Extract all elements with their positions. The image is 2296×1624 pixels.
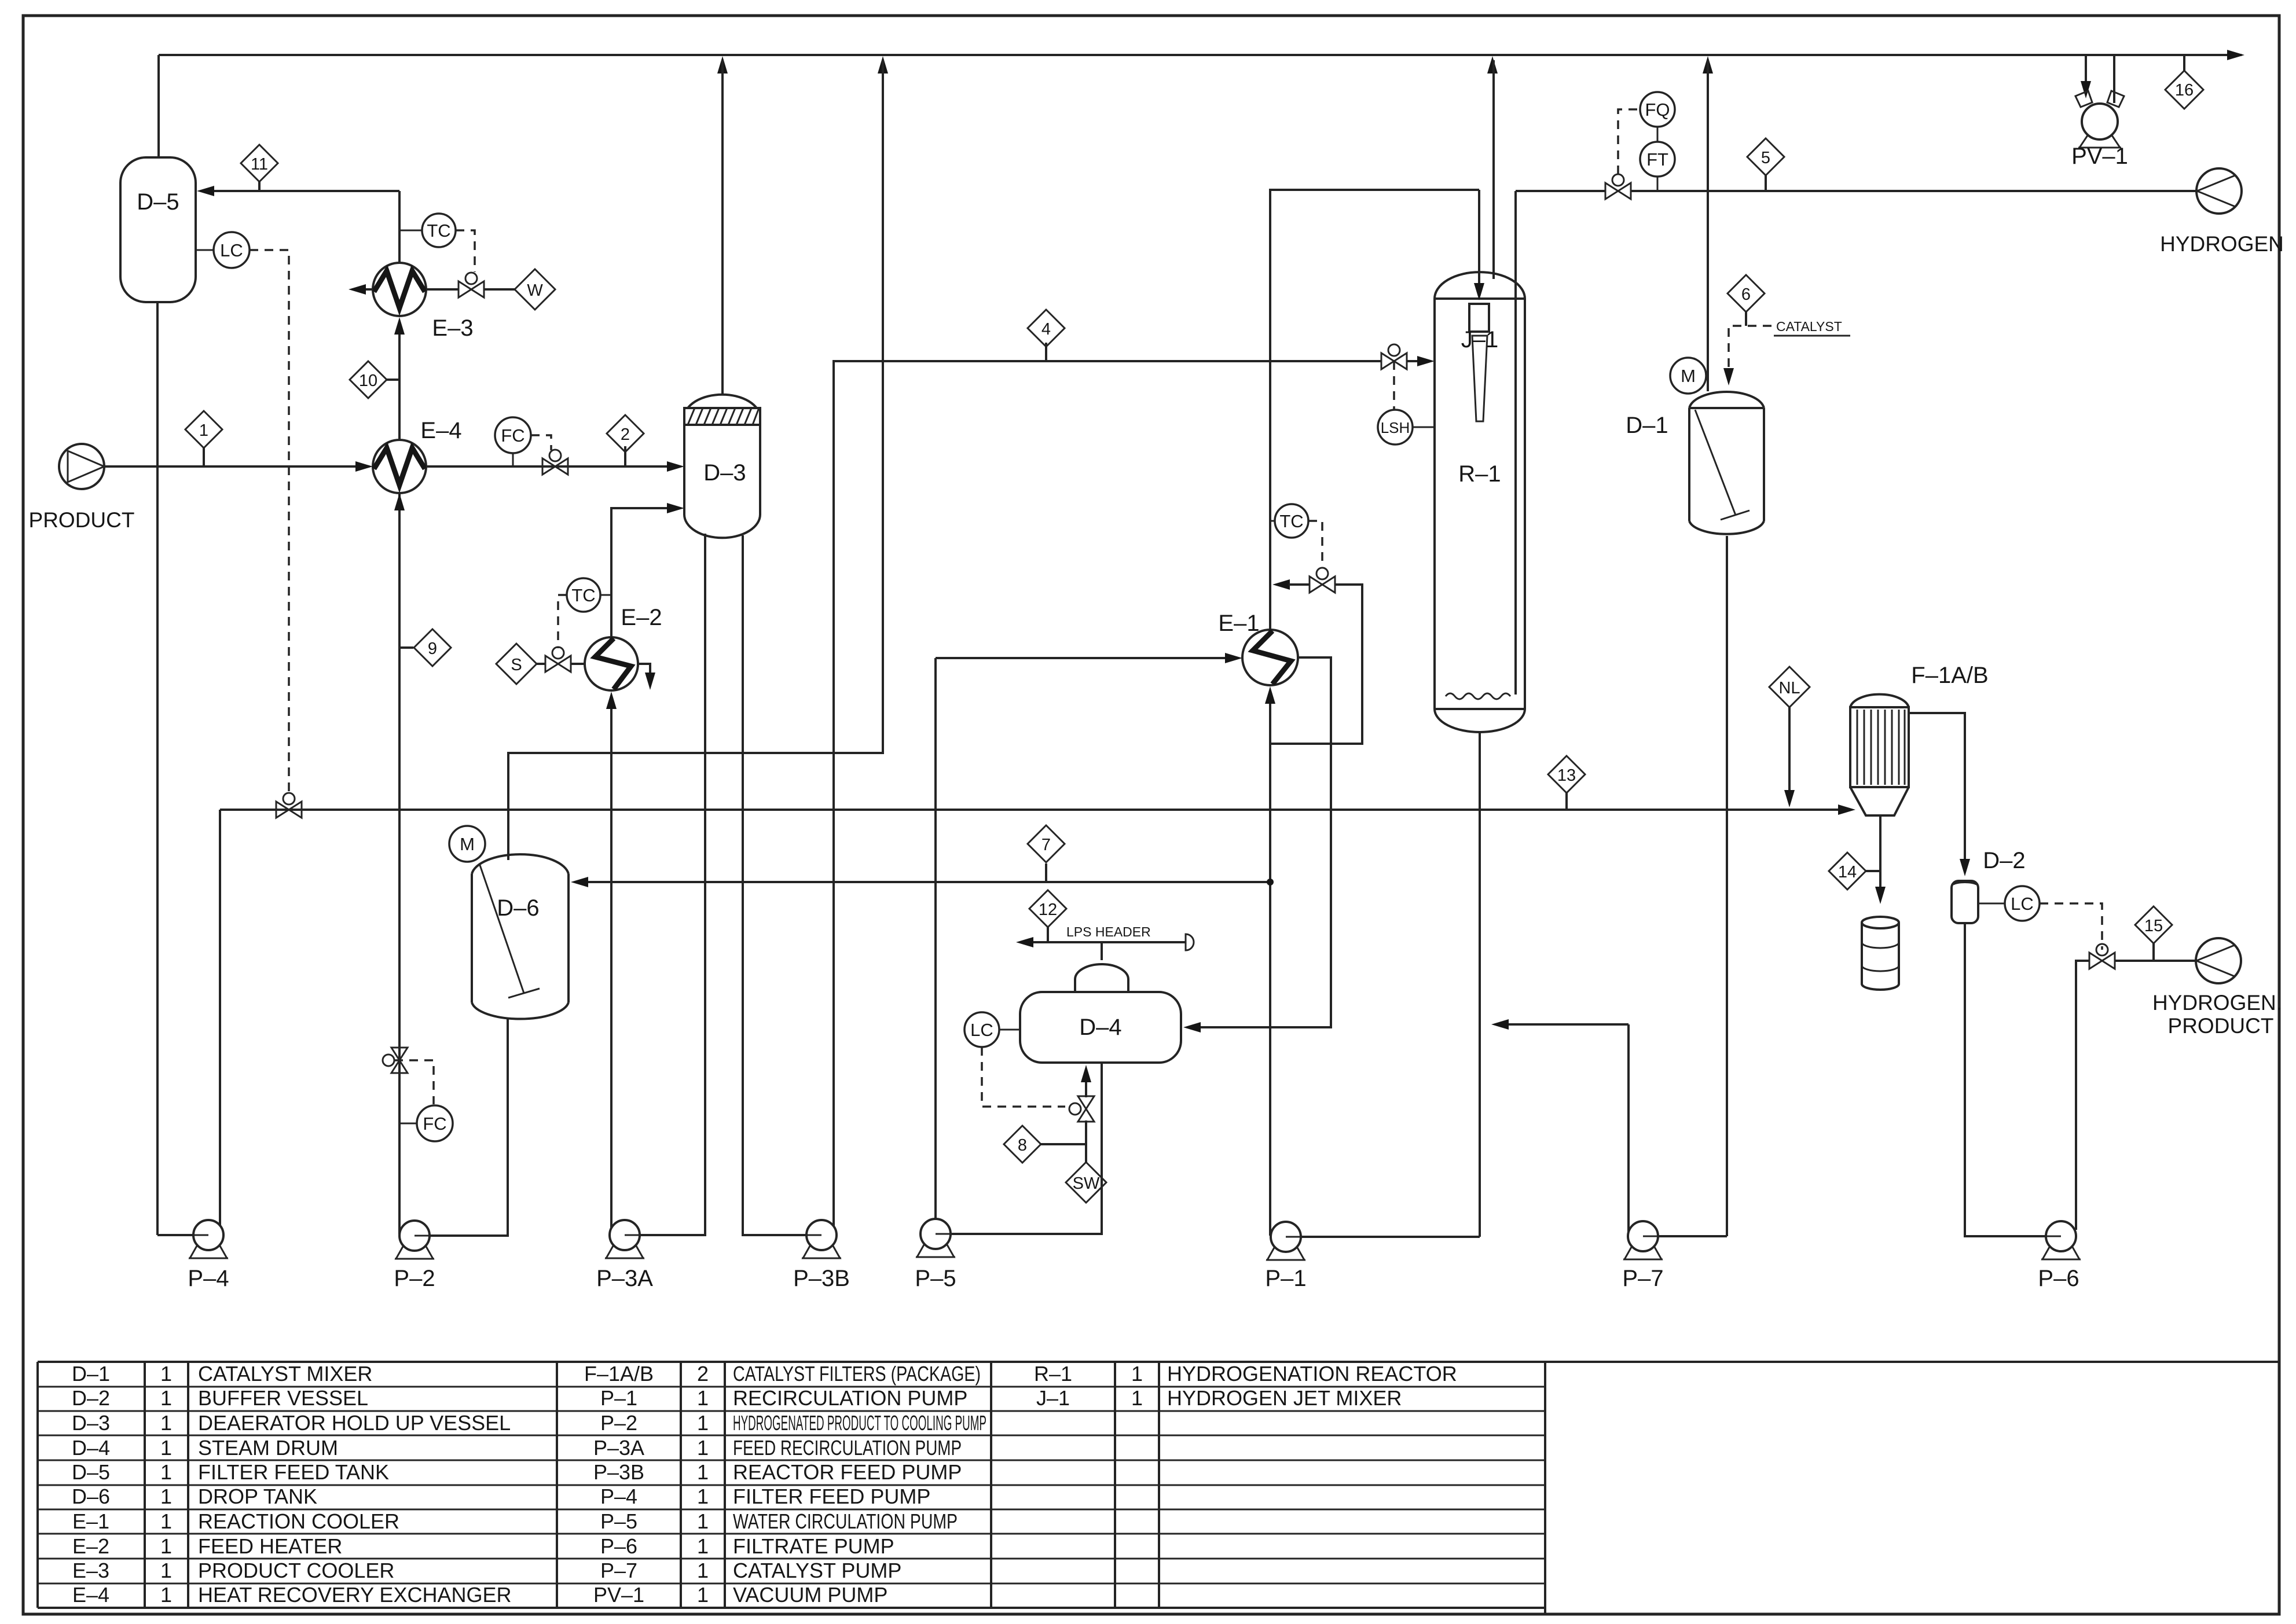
- pump P-3B: [793, 1220, 850, 1291]
- wire: D-1 feed drop: [1707, 191, 1709, 391]
- steam drum D-4: [1020, 964, 1181, 1063]
- svg-text:1: 1: [160, 1534, 172, 1558]
- wire: E-3 to cooling water valve: [426, 288, 459, 291]
- hydrogen supply symbol: [2160, 168, 2284, 256]
- utility diamond SW: [1066, 1162, 1106, 1203]
- wire: E-2 condensate drain stub: [638, 664, 655, 690]
- hydrogenation reactor R-1: [1435, 272, 1525, 732]
- junction arrow: D-6 vent joins header: [878, 56, 888, 74]
- wire: valve to R-1 inlet: [1407, 356, 1435, 366]
- svg-text:TC: TC: [427, 221, 450, 241]
- svg-text:PRODUCT COOLER: PRODUCT COOLER: [198, 1559, 394, 1582]
- pump P-6: [2038, 1221, 2081, 1291]
- svg-text:FILTRATE PUMP: FILTRATE PUMP: [733, 1534, 894, 1558]
- drop tank D-6: [472, 854, 569, 1019]
- wire: dashed TC to steam valve: [558, 595, 567, 648]
- wire: D-3 right bottom outlet to P-3B suction: [743, 535, 807, 1235]
- level switch high LSH: [1378, 410, 1435, 444]
- svg-text:TC: TC: [571, 585, 595, 605]
- svg-text:WATER CIRCULATION PUMP: WATER CIRCULATION PUMP: [733, 1509, 958, 1533]
- svg-text:1: 1: [697, 1411, 709, 1435]
- svg-text:1: 1: [160, 1362, 172, 1386]
- svg-text:P–3A: P–3A: [593, 1436, 644, 1460]
- wire: D-3 riser to header: [721, 60, 724, 395]
- svg-text:TC: TC: [1279, 511, 1303, 531]
- utility diamond W (cooling water): [515, 269, 555, 310]
- svg-text:HYDROGEN JET MIXER: HYDROGEN JET MIXER: [1167, 1386, 1402, 1410]
- wire: D-3 left bottom outlet to P-3A discharge: [639, 534, 705, 1235]
- wire: dashed valve to LSH: [1393, 361, 1395, 410]
- svg-text:1: 1: [160, 1386, 172, 1410]
- wire: NL into filter feed line: [1784, 707, 1795, 807]
- product cooler E-3: [373, 263, 474, 341]
- buffer vessel D-2: [1952, 848, 2026, 923]
- svg-text:7: 7: [1041, 836, 1051, 854]
- svg-text:1: 1: [697, 1460, 709, 1484]
- svg-text:PV–1: PV–1: [593, 1583, 644, 1607]
- svg-text:W: W: [527, 281, 543, 300]
- stream diamond 12: [1029, 890, 1066, 942]
- svg-text:D–1: D–1: [1626, 413, 1668, 438]
- LPS header line: [1016, 934, 1194, 950]
- control valve (steam to E-2): [545, 647, 571, 672]
- svg-text:E–3: E–3: [432, 315, 473, 341]
- svg-text:11: 11: [251, 155, 268, 174]
- svg-text:P–7: P–7: [1622, 1266, 1663, 1291]
- svg-text:LSH: LSH: [1381, 419, 1410, 436]
- wire: bypass from valve down and back to E-1 suction: [1270, 585, 1362, 744]
- wire: product feed to E-4: [104, 461, 373, 472]
- svg-text:P–3B: P–3B: [793, 1266, 850, 1291]
- stream diamond 13: [1548, 756, 1585, 810]
- svg-text:14: 14: [1838, 863, 1857, 881]
- stream diamond 16: [2165, 55, 2203, 109]
- svg-text:J–1: J–1: [1036, 1386, 1070, 1410]
- svg-text:RECIRCULATION PUMP: RECIRCULATION PUMP: [733, 1386, 967, 1410]
- wire: P-7 discharge to D-1 bottoms line: [1658, 1235, 1727, 1237]
- svg-text:D–6: D–6: [72, 1485, 110, 1508]
- junction arrow: R-1 riser joins header: [1487, 56, 1498, 74]
- svg-text:STEAM DRUM: STEAM DRUM: [198, 1436, 338, 1460]
- svg-text:P–6: P–6: [600, 1534, 637, 1558]
- wire: dashed TC to bypass valve: [1308, 521, 1322, 563]
- svg-text:E–4: E–4: [72, 1583, 109, 1607]
- stream diamond 2: [607, 415, 644, 466]
- flow controller FC (deaerator feed): [495, 417, 531, 466]
- control valve (P-2 discharge, vertical): [383, 1048, 408, 1073]
- svg-text:1: 1: [160, 1436, 172, 1460]
- svg-text:E–1: E–1: [1218, 611, 1259, 636]
- flow totalizer FQ: [1640, 92, 1675, 127]
- svg-text:P–3B: P–3B: [593, 1460, 644, 1484]
- svg-text:1: 1: [697, 1485, 709, 1508]
- catalyst filters F-1A/B: [1850, 663, 1989, 815]
- wire: D-1 overhead line to header: [1707, 60, 1709, 191]
- svg-text:P–4: P–4: [188, 1266, 229, 1291]
- svg-text:E–2: E–2: [621, 605, 662, 630]
- wire: drop tank feed line from recirculation: [571, 877, 1270, 887]
- wire: dashed LC signal to valve on filter feed line: [250, 250, 289, 794]
- agitator motor M (D-1): [1670, 358, 1706, 394]
- filter feed tank D-5: [120, 157, 196, 302]
- wire: E-4 outlet to D-3: [426, 461, 684, 472]
- svg-text:FC: FC: [423, 1114, 446, 1134]
- svg-text:M: M: [460, 834, 475, 854]
- svg-text:HYDROGENATED PRODUCT TO COOLIN: HYDROGENATED PRODUCT TO COOLING PUMP: [733, 1411, 986, 1435]
- svg-text:P–6: P–6: [2038, 1266, 2079, 1291]
- flow controller FC (P-2 line): [399, 1105, 453, 1141]
- wire: E-4 to E-3 vertical: [394, 317, 405, 440]
- svg-text:HYDROGEN: HYDROGEN: [2160, 232, 2284, 256]
- wire: E-3 riser to D-5 line: [398, 191, 401, 263]
- svg-text:D–1: D–1: [72, 1362, 110, 1386]
- wire: R-1 vapour riser to header: [1492, 60, 1495, 279]
- svg-text:6: 6: [1741, 285, 1751, 304]
- wire: D-1 bottoms down to P-7: [1726, 536, 1728, 1236]
- wire: D-4 water outlet to P-5 suction: [951, 1063, 1102, 1234]
- wire: valve to E-2: [571, 663, 585, 665]
- svg-text:LPS HEADER: LPS HEADER: [1066, 924, 1151, 939]
- svg-text:1: 1: [697, 1436, 709, 1460]
- svg-text:D–4: D–4: [1079, 1015, 1121, 1040]
- svg-text:P–1: P–1: [1265, 1266, 1306, 1291]
- svg-text:9: 9: [428, 640, 437, 658]
- svg-text:8: 8: [1018, 1136, 1027, 1155]
- pump P-2: [394, 1221, 435, 1291]
- svg-text:E–2: E–2: [72, 1534, 109, 1558]
- svg-text:1: 1: [697, 1534, 709, 1558]
- wire: D-6 bottoms down to P-2 discharge corner: [430, 1019, 508, 1236]
- svg-text:16: 16: [2175, 81, 2194, 100]
- svg-text:E–3: E–3: [72, 1559, 109, 1582]
- wire: D-6 vent riser to header: [508, 60, 883, 860]
- wire: P-5 discharge riser to E-1: [934, 658, 937, 1218]
- svg-text:1: 1: [160, 1583, 172, 1607]
- svg-text:REACTION COOLER: REACTION COOLER: [198, 1509, 399, 1533]
- svg-text:1: 1: [160, 1559, 172, 1582]
- wire: bypass valve line joining E-1 riser: [1272, 579, 1310, 590]
- svg-text:D–4: D–4: [72, 1436, 110, 1460]
- wire: SW make-up into D-4: [1081, 1065, 1091, 1162]
- pump P-3A: [596, 1220, 653, 1291]
- deaerator hold up vessel D-3: [684, 395, 760, 538]
- stream diamond 15: [2135, 906, 2172, 961]
- svg-text:12: 12: [1039, 901, 1057, 919]
- temperature controller TC (E-3): [399, 214, 456, 247]
- svg-text:1: 1: [1131, 1386, 1143, 1410]
- wire: dashed valve to FQ: [1618, 109, 1638, 174]
- svg-text:FILTER FEED PUMP: FILTER FEED PUMP: [733, 1485, 930, 1508]
- svg-text:1: 1: [1131, 1362, 1143, 1386]
- stream diamond 10: [350, 361, 399, 398]
- wire: hydrogen dip tube inside R-1: [1514, 191, 1517, 695]
- svg-text:S: S: [511, 656, 522, 674]
- svg-text:DROP TANK: DROP TANK: [198, 1485, 317, 1508]
- svg-text:DEAERATOR HOLD UP VESSEL: DEAERATOR HOLD UP VESSEL: [198, 1411, 511, 1435]
- svg-text:1: 1: [160, 1411, 172, 1435]
- svg-text:REACTOR FEED PUMP: REACTOR FEED PUMP: [733, 1460, 962, 1484]
- svg-text:FT: FT: [1646, 149, 1668, 170]
- control valve (D-3 feed): [542, 450, 568, 475]
- wire: header drop into PV-1: [2081, 55, 2091, 98]
- svg-text:F–1A/B: F–1A/B: [584, 1362, 654, 1386]
- control valve (hydrogenated product): [2089, 944, 2115, 969]
- wire: D-2 bottoms down to P-6: [1965, 923, 2046, 1236]
- svg-text:1: 1: [697, 1583, 709, 1607]
- svg-text:SW: SW: [1073, 1174, 1100, 1193]
- stream diamond 6: [1727, 275, 1765, 326]
- svg-text:2: 2: [621, 425, 630, 444]
- svg-text:R–1: R–1: [1034, 1362, 1072, 1386]
- svg-text:BUFFER VESSEL: BUFFER VESSEL: [198, 1386, 368, 1410]
- wire: PV-1 discharge to header: [2113, 55, 2115, 103]
- wire: filter solids drop to drum: [1875, 815, 1886, 904]
- svg-text:P–3A: P–3A: [596, 1266, 653, 1291]
- svg-text:J–1: J–1: [1461, 327, 1499, 352]
- level controller LC (D-4): [964, 1012, 1020, 1047]
- svg-text:4: 4: [1041, 320, 1051, 339]
- junction arrow: D-1 line joins header: [1703, 56, 1713, 74]
- control valve (E-1 bypass): [1310, 568, 1335, 593]
- svg-text:LC: LC: [2011, 894, 2034, 914]
- wire: cooling water into E-1 from P-5: [936, 653, 1242, 663]
- hydrogen supply line: [1516, 190, 1605, 192]
- svg-text:5: 5: [1761, 149, 1770, 167]
- wire: E-2 bottom line down to P-3A: [606, 692, 617, 1234]
- product feed symbol: [29, 444, 135, 532]
- svg-text:M: M: [1681, 366, 1696, 386]
- wire: E-2 outlet into D-3 side: [611, 503, 684, 637]
- svg-text:P–4: P–4: [600, 1485, 637, 1508]
- stream diamond 9: [399, 629, 451, 666]
- svg-text:P–2: P–2: [600, 1411, 637, 1435]
- wire: dashed TC to W valve: [456, 230, 475, 272]
- wire: R-1 bottoms down to P-1 discharge: [1479, 731, 1481, 1237]
- wire: top vapour header y=95: [159, 50, 2244, 60]
- level controller LC (D-5): [196, 232, 250, 268]
- svg-text:HEAT RECOVERY EXCHANGER: HEAT RECOVERY EXCHANGER: [198, 1583, 511, 1607]
- svg-text:D–2: D–2: [1983, 848, 2025, 873]
- wire: D-5 bottom outlet down to P-4: [156, 302, 159, 1235]
- svg-text:D–2: D–2: [72, 1386, 110, 1410]
- svg-text:D–3: D–3: [703, 460, 746, 486]
- svg-text:E–1: E–1: [72, 1509, 109, 1533]
- svg-text:P–2: P–2: [394, 1266, 435, 1291]
- wire: E-1 outlet up and across to J-1: [1270, 190, 1479, 630]
- svg-text:CATALYST MIXER: CATALYST MIXER: [198, 1362, 372, 1386]
- wire: steam line to LPS header: [1101, 942, 1103, 960]
- wire: filtrate outlet to D-2: [1909, 713, 1970, 876]
- svg-text:D–5: D–5: [72, 1460, 110, 1484]
- svg-text:1: 1: [697, 1559, 709, 1582]
- svg-text:PRODUCT: PRODUCT: [29, 508, 135, 532]
- svg-text:PV–1: PV–1: [2071, 144, 2128, 169]
- wire: main filter feed line P-4 to F-1A/B: [220, 804, 1855, 815]
- level controller LC (D-2): [1978, 886, 2040, 921]
- pump P-5: [915, 1219, 956, 1291]
- svg-text:FEED HEATER: FEED HEATER: [198, 1534, 342, 1558]
- svg-text:D–5: D–5: [137, 189, 179, 215]
- stream diamond 5: [1747, 138, 1784, 191]
- svg-text:LC: LC: [220, 240, 243, 260]
- wire: recirculation to J-1 (top entry): [1474, 190, 1484, 300]
- svg-text:10: 10: [359, 372, 377, 390]
- flow transmitter FT: [1640, 127, 1675, 191]
- wire: P-4 suction from D-5 line: [157, 1234, 193, 1236]
- pump P-1: [1265, 1222, 1306, 1291]
- wire: D-5 top riser: [157, 55, 160, 157]
- stream diamond 14: [1829, 853, 1880, 890]
- svg-text:P–7: P–7: [600, 1559, 637, 1582]
- stream diamond 4: [1028, 310, 1065, 361]
- stream diamond 7: [1028, 825, 1065, 882]
- heat recovery exchanger E-4: [373, 418, 462, 493]
- svg-text:FC: FC: [501, 425, 525, 446]
- wire: E-4 product line down to P-2: [398, 493, 401, 1234]
- svg-text:FQ: FQ: [1645, 100, 1670, 120]
- svg-text:P–5: P–5: [600, 1509, 637, 1533]
- hydrogenated product outlet symbol: [2152, 938, 2282, 1038]
- svg-text:1: 1: [697, 1509, 709, 1533]
- catalyst bed wavy line inside R-1: [1446, 693, 1510, 699]
- svg-text:PRODUCT: PRODUCT: [2168, 1014, 2274, 1038]
- temperature controller TC (E-2): [567, 578, 611, 612]
- control valve (filter feed): [276, 793, 302, 818]
- svg-text:CATALYST: CATALYST: [1776, 319, 1842, 334]
- wire: E-1 bottom line down to P-1: [1265, 686, 1275, 1236]
- svg-text:P–1: P–1: [600, 1386, 637, 1410]
- wire: dashed valve to FC: [394, 1060, 434, 1104]
- svg-text:CATALYST PUMP: CATALYST PUMP: [733, 1559, 901, 1582]
- stream diamond 1: [185, 411, 222, 466]
- svg-text:13: 13: [1557, 766, 1576, 785]
- svg-text:15: 15: [2144, 917, 2163, 935]
- wire: P-4 discharge riser: [219, 810, 221, 1226]
- utility diamond S (steam): [496, 644, 537, 684]
- control valve (SW make-up, vertical): [1069, 1096, 1094, 1122]
- reaction cooler E-1: [1218, 611, 1298, 685]
- svg-text:FEED RECIRCULATION PUMP: FEED RECIRCULATION PUMP: [733, 1436, 962, 1460]
- catalyst drum: [1862, 917, 1899, 990]
- svg-text:FILTER FEED TANK: FILTER FEED TANK: [198, 1460, 389, 1484]
- catalyst addition label and dashed line: [1723, 319, 1850, 385]
- wire: E-3 cooling water outlet stub: [349, 284, 373, 295]
- feed heater E-2: [585, 605, 662, 690]
- svg-text:1: 1: [199, 421, 208, 440]
- svg-text:VACUUM PUMP: VACUUM PUMP: [733, 1583, 887, 1607]
- wire: P-6 discharge to hydrogenated product: [2076, 961, 2089, 1230]
- wire: product return line into D-5 (from E-3 riser): [197, 186, 399, 196]
- wire: dashed LC to product valve: [2040, 903, 2102, 950]
- catalyst mixer D-1: [1626, 392, 1764, 534]
- svg-text:R–1: R–1: [1458, 461, 1501, 487]
- svg-text:F–1A/B: F–1A/B: [1911, 663, 1988, 688]
- agitator motor M (D-6): [449, 826, 485, 862]
- svg-text:D–6: D–6: [497, 895, 539, 921]
- svg-text:HYDROGEN.: HYDROGEN.: [2152, 991, 2282, 1015]
- control valve (hydrogen): [1605, 174, 1631, 199]
- svg-text:HYDROGENATION REACTOR: HYDROGENATION REACTOR: [1167, 1362, 1457, 1386]
- svg-text:1: 1: [160, 1485, 172, 1508]
- wire: S to valve: [537, 663, 545, 665]
- wire: dashed FC to control valve: [531, 435, 551, 450]
- pump P-4: [188, 1220, 229, 1291]
- control valve (cooling water W): [459, 273, 484, 297]
- svg-text:LC: LC: [970, 1020, 993, 1040]
- svg-text:1: 1: [160, 1509, 172, 1533]
- stream diamond 8: [1004, 1126, 1086, 1163]
- svg-text:CATALYST FILTERS (PACKAGE): CATALYST FILTERS (PACKAGE): [733, 1362, 981, 1386]
- wire: E-1 water outlet down to D-4: [1183, 657, 1331, 1033]
- svg-text:E–4: E–4: [420, 418, 461, 443]
- wire: P-3B discharge riser and reactor feed line: [834, 361, 1381, 1226]
- equipment table: [38, 1362, 2279, 1614]
- stream diamond 11: [241, 145, 278, 191]
- pump P-7: [1622, 1221, 1663, 1291]
- svg-text:P–5: P–5: [915, 1266, 956, 1291]
- wire: P-1 discharge to R-1 bottoms line: [1301, 1236, 1480, 1238]
- temperature controller TC (E-1): [1270, 504, 1308, 538]
- wire: P-7 discharge joining R-1 bottoms line: [1491, 1019, 1629, 1235]
- svg-text:1: 1: [697, 1386, 709, 1410]
- wire: valve to W diamond: [484, 288, 515, 291]
- svg-text:D–3: D–3: [72, 1411, 110, 1435]
- wire: dashed LC to make-up valve: [982, 1047, 1065, 1107]
- control valve (reactor feed): [1381, 344, 1407, 369]
- svg-text:2: 2: [697, 1362, 709, 1386]
- vacuum pump PV-1: [2071, 91, 2128, 169]
- hydrogen jet mixer J-1: [1461, 304, 1499, 421]
- svg-text:1: 1: [160, 1460, 172, 1484]
- stream diamond NL: [1769, 667, 1810, 707]
- junction arrow: D-3 riser joins header: [717, 56, 728, 74]
- svg-text:NL: NL: [1778, 679, 1800, 697]
